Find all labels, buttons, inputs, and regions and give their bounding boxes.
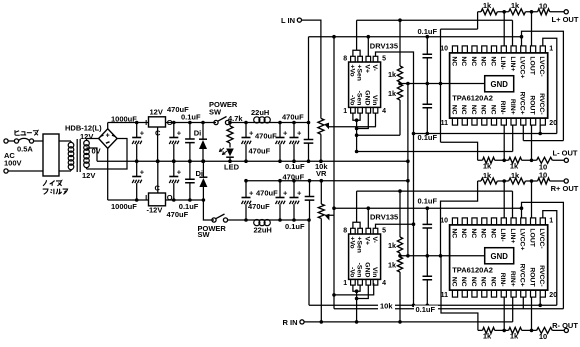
svg-text:NC: NC bbox=[470, 105, 477, 115]
svg-text:DRV135: DRV135 bbox=[370, 213, 398, 222]
svg-text:1: 1 bbox=[549, 218, 553, 225]
svg-text:0.5A: 0.5A bbox=[17, 145, 33, 154]
svg-text:12V: 12V bbox=[80, 132, 93, 141]
svg-text:1k: 1k bbox=[388, 261, 396, 270]
svg-text:GND: GND bbox=[491, 252, 509, 261]
svg-text:+: + bbox=[283, 129, 288, 138]
svg-text:NC: NC bbox=[450, 105, 457, 115]
svg-text:+: + bbox=[177, 129, 182, 138]
svg-text:RVCC+: RVCC+ bbox=[519, 91, 526, 114]
svg-text:1: 1 bbox=[343, 108, 347, 115]
svg-text:5: 5 bbox=[382, 56, 386, 63]
svg-text:10: 10 bbox=[539, 171, 547, 180]
svg-text:+Vo: +Vo bbox=[348, 65, 355, 77]
svg-text:+: + bbox=[140, 168, 145, 177]
svg-text:0.1uF: 0.1uF bbox=[179, 202, 199, 211]
svg-text:11: 11 bbox=[441, 292, 449, 299]
svg-text:LOUT: LOUT bbox=[529, 228, 536, 247]
svg-text:LIN-: LIN- bbox=[499, 56, 506, 69]
svg-text:10: 10 bbox=[539, 2, 547, 11]
svg-text:RIN-: RIN- bbox=[499, 101, 506, 115]
svg-text:+Vo: +Vo bbox=[348, 237, 355, 249]
svg-text:RVCC-: RVCC- bbox=[538, 93, 545, 114]
svg-text:11: 11 bbox=[441, 120, 449, 127]
svg-text:+: + bbox=[140, 129, 145, 138]
svg-text:Di: Di bbox=[196, 169, 204, 178]
svg-text:Di: Di bbox=[194, 129, 202, 138]
svg-text:0.1uF: 0.1uF bbox=[285, 162, 305, 171]
svg-text:NC: NC bbox=[489, 277, 496, 287]
svg-text:NC: NC bbox=[480, 277, 487, 287]
svg-text:NC: NC bbox=[480, 228, 487, 238]
svg-text:-Vo: -Vo bbox=[348, 95, 355, 105]
svg-text:1000uF: 1000uF bbox=[111, 115, 137, 124]
svg-text:4.7k: 4.7k bbox=[228, 114, 243, 123]
svg-text:0V: 0V bbox=[92, 147, 101, 156]
svg-text:10: 10 bbox=[539, 332, 547, 341]
svg-text:470uF: 470uF bbox=[282, 112, 304, 121]
svg-text:20: 20 bbox=[549, 292, 557, 299]
svg-text:V-: V- bbox=[371, 65, 378, 71]
svg-text:NC: NC bbox=[450, 56, 457, 66]
svg-text:+: + bbox=[177, 168, 182, 177]
svg-text:V+: V+ bbox=[364, 65, 371, 74]
svg-text:-Sen: -Sen bbox=[356, 263, 363, 278]
svg-text:1k: 1k bbox=[483, 171, 492, 180]
svg-text:R- OUT: R- OUT bbox=[552, 321, 578, 330]
svg-text:LVCC-: LVCC- bbox=[538, 56, 545, 76]
svg-text:0.1uF: 0.1uF bbox=[416, 305, 436, 314]
svg-text:TPA6120A2: TPA6120A2 bbox=[452, 93, 493, 102]
svg-text:470uF: 470uF bbox=[255, 132, 277, 141]
svg-text:4: 4 bbox=[382, 280, 386, 287]
svg-text:+: + bbox=[283, 189, 288, 198]
svg-text:NC: NC bbox=[470, 56, 477, 66]
svg-text:L- OUT: L- OUT bbox=[553, 149, 578, 158]
svg-text:NC: NC bbox=[470, 277, 477, 287]
svg-text:LIN+: LIN+ bbox=[509, 228, 516, 243]
svg-text:1k: 1k bbox=[388, 241, 396, 250]
svg-text:I: I bbox=[145, 118, 147, 127]
svg-text:V-: V- bbox=[371, 237, 378, 243]
svg-text:0.1uF: 0.1uF bbox=[418, 133, 438, 142]
svg-text:LVCC+: LVCC+ bbox=[519, 56, 526, 78]
svg-text:O: O bbox=[167, 193, 173, 202]
svg-text:Vin: Vin bbox=[371, 95, 378, 105]
svg-text:22uH: 22uH bbox=[254, 225, 272, 234]
svg-text:1: 1 bbox=[343, 280, 347, 287]
svg-text:NC: NC bbox=[460, 228, 467, 238]
svg-text:NC: NC bbox=[460, 277, 467, 287]
svg-text:GND: GND bbox=[491, 80, 509, 89]
svg-text:-Sen: -Sen bbox=[356, 91, 363, 106]
svg-text:1k: 1k bbox=[483, 162, 492, 171]
svg-text:RVCC-: RVCC- bbox=[538, 265, 545, 286]
svg-text:1k: 1k bbox=[483, 332, 492, 341]
svg-text:470uF: 470uF bbox=[256, 188, 278, 197]
svg-text:470uF: 470uF bbox=[167, 210, 189, 219]
svg-text:GND: GND bbox=[364, 90, 371, 105]
svg-text:VR: VR bbox=[316, 169, 327, 178]
svg-text:C: C bbox=[155, 129, 161, 138]
svg-text:1k: 1k bbox=[483, 1, 492, 10]
svg-text:1k: 1k bbox=[511, 1, 520, 10]
svg-text:O: O bbox=[167, 118, 173, 127]
svg-text:LIN+: LIN+ bbox=[509, 56, 516, 71]
svg-text:L+ OUT: L+ OUT bbox=[552, 15, 579, 24]
svg-text:ROUT: ROUT bbox=[529, 267, 536, 287]
svg-text:C: C bbox=[155, 184, 161, 193]
svg-text:NC: NC bbox=[480, 56, 487, 66]
svg-text:100V: 100V bbox=[4, 159, 22, 168]
svg-text:470uF: 470uF bbox=[248, 202, 270, 211]
svg-text:NC: NC bbox=[460, 56, 467, 66]
svg-text:NC: NC bbox=[450, 228, 457, 238]
svg-text:RIN+: RIN+ bbox=[509, 271, 516, 287]
svg-text:NC: NC bbox=[460, 105, 467, 115]
svg-text:NC: NC bbox=[450, 277, 457, 287]
svg-text:RVCC+: RVCC+ bbox=[519, 263, 526, 286]
svg-text:-Vo: -Vo bbox=[348, 267, 355, 277]
svg-text:I: I bbox=[145, 193, 147, 202]
svg-text:LVCC-: LVCC- bbox=[538, 228, 545, 248]
svg-text:SW: SW bbox=[198, 230, 211, 239]
svg-text:LVCC+: LVCC+ bbox=[519, 228, 526, 250]
svg-text:8: 8 bbox=[343, 56, 347, 63]
svg-text:1k: 1k bbox=[510, 332, 519, 341]
svg-text:22uH: 22uH bbox=[251, 108, 269, 117]
svg-text:LIN-: LIN- bbox=[499, 228, 506, 241]
svg-text:LED: LED bbox=[224, 163, 240, 172]
svg-text:ROUT: ROUT bbox=[529, 95, 536, 115]
svg-text:SW: SW bbox=[209, 107, 222, 116]
svg-text:+: + bbox=[249, 189, 254, 198]
svg-text:10k: 10k bbox=[380, 301, 393, 310]
svg-text:12V: 12V bbox=[82, 171, 95, 180]
svg-text:1k: 1k bbox=[388, 89, 396, 98]
svg-text:RIN-: RIN- bbox=[499, 273, 506, 287]
svg-text:+: + bbox=[106, 132, 110, 139]
svg-text:HDB-12(L): HDB-12(L) bbox=[65, 124, 102, 133]
svg-text:20: 20 bbox=[549, 120, 557, 127]
svg-text:+: + bbox=[297, 189, 302, 198]
svg-text:RIN+: RIN+ bbox=[509, 99, 516, 115]
svg-text:+Sen: +Sen bbox=[356, 65, 363, 81]
svg-text:0.1uF: 0.1uF bbox=[418, 27, 438, 36]
svg-text:470uF: 470uF bbox=[249, 147, 271, 156]
svg-text:NC: NC bbox=[480, 105, 487, 115]
svg-text:10: 10 bbox=[440, 46, 448, 53]
svg-text:GND: GND bbox=[364, 262, 371, 277]
svg-text:1000uF: 1000uF bbox=[111, 202, 137, 211]
svg-text:5: 5 bbox=[382, 228, 386, 235]
svg-text:+: + bbox=[297, 129, 302, 138]
svg-text:V+: V+ bbox=[364, 237, 371, 246]
svg-text:470uF: 470uF bbox=[283, 173, 305, 182]
svg-text:1k: 1k bbox=[388, 70, 396, 79]
svg-text:8: 8 bbox=[343, 228, 347, 235]
svg-text:DRV135: DRV135 bbox=[370, 42, 398, 51]
svg-text:R+ OUT: R+ OUT bbox=[551, 184, 579, 193]
svg-text:TPA6120A2: TPA6120A2 bbox=[452, 265, 493, 274]
svg-text:NC: NC bbox=[489, 56, 496, 66]
svg-text:R IN: R IN bbox=[283, 318, 298, 327]
svg-text:10: 10 bbox=[440, 218, 448, 225]
svg-text:1: 1 bbox=[549, 46, 553, 53]
svg-text:4: 4 bbox=[382, 108, 386, 115]
svg-text:Vin: Vin bbox=[371, 267, 378, 277]
svg-text:-12V: -12V bbox=[147, 206, 163, 215]
svg-text:+: + bbox=[249, 129, 254, 138]
svg-text:NC: NC bbox=[489, 105, 496, 115]
svg-text:+Sen: +Sen bbox=[356, 237, 363, 253]
svg-text:NC: NC bbox=[489, 228, 496, 238]
svg-text:12V: 12V bbox=[150, 108, 163, 117]
svg-text:L IN: L IN bbox=[281, 16, 295, 25]
svg-text:0.1uF: 0.1uF bbox=[418, 197, 438, 206]
svg-text:0.1uF: 0.1uF bbox=[285, 222, 305, 231]
svg-text:NC: NC bbox=[470, 228, 477, 238]
svg-text:0.1uF: 0.1uF bbox=[181, 112, 201, 121]
svg-text:1k: 1k bbox=[511, 171, 520, 180]
svg-text:LOUT: LOUT bbox=[529, 56, 536, 75]
svg-text:1k: 1k bbox=[510, 162, 519, 171]
